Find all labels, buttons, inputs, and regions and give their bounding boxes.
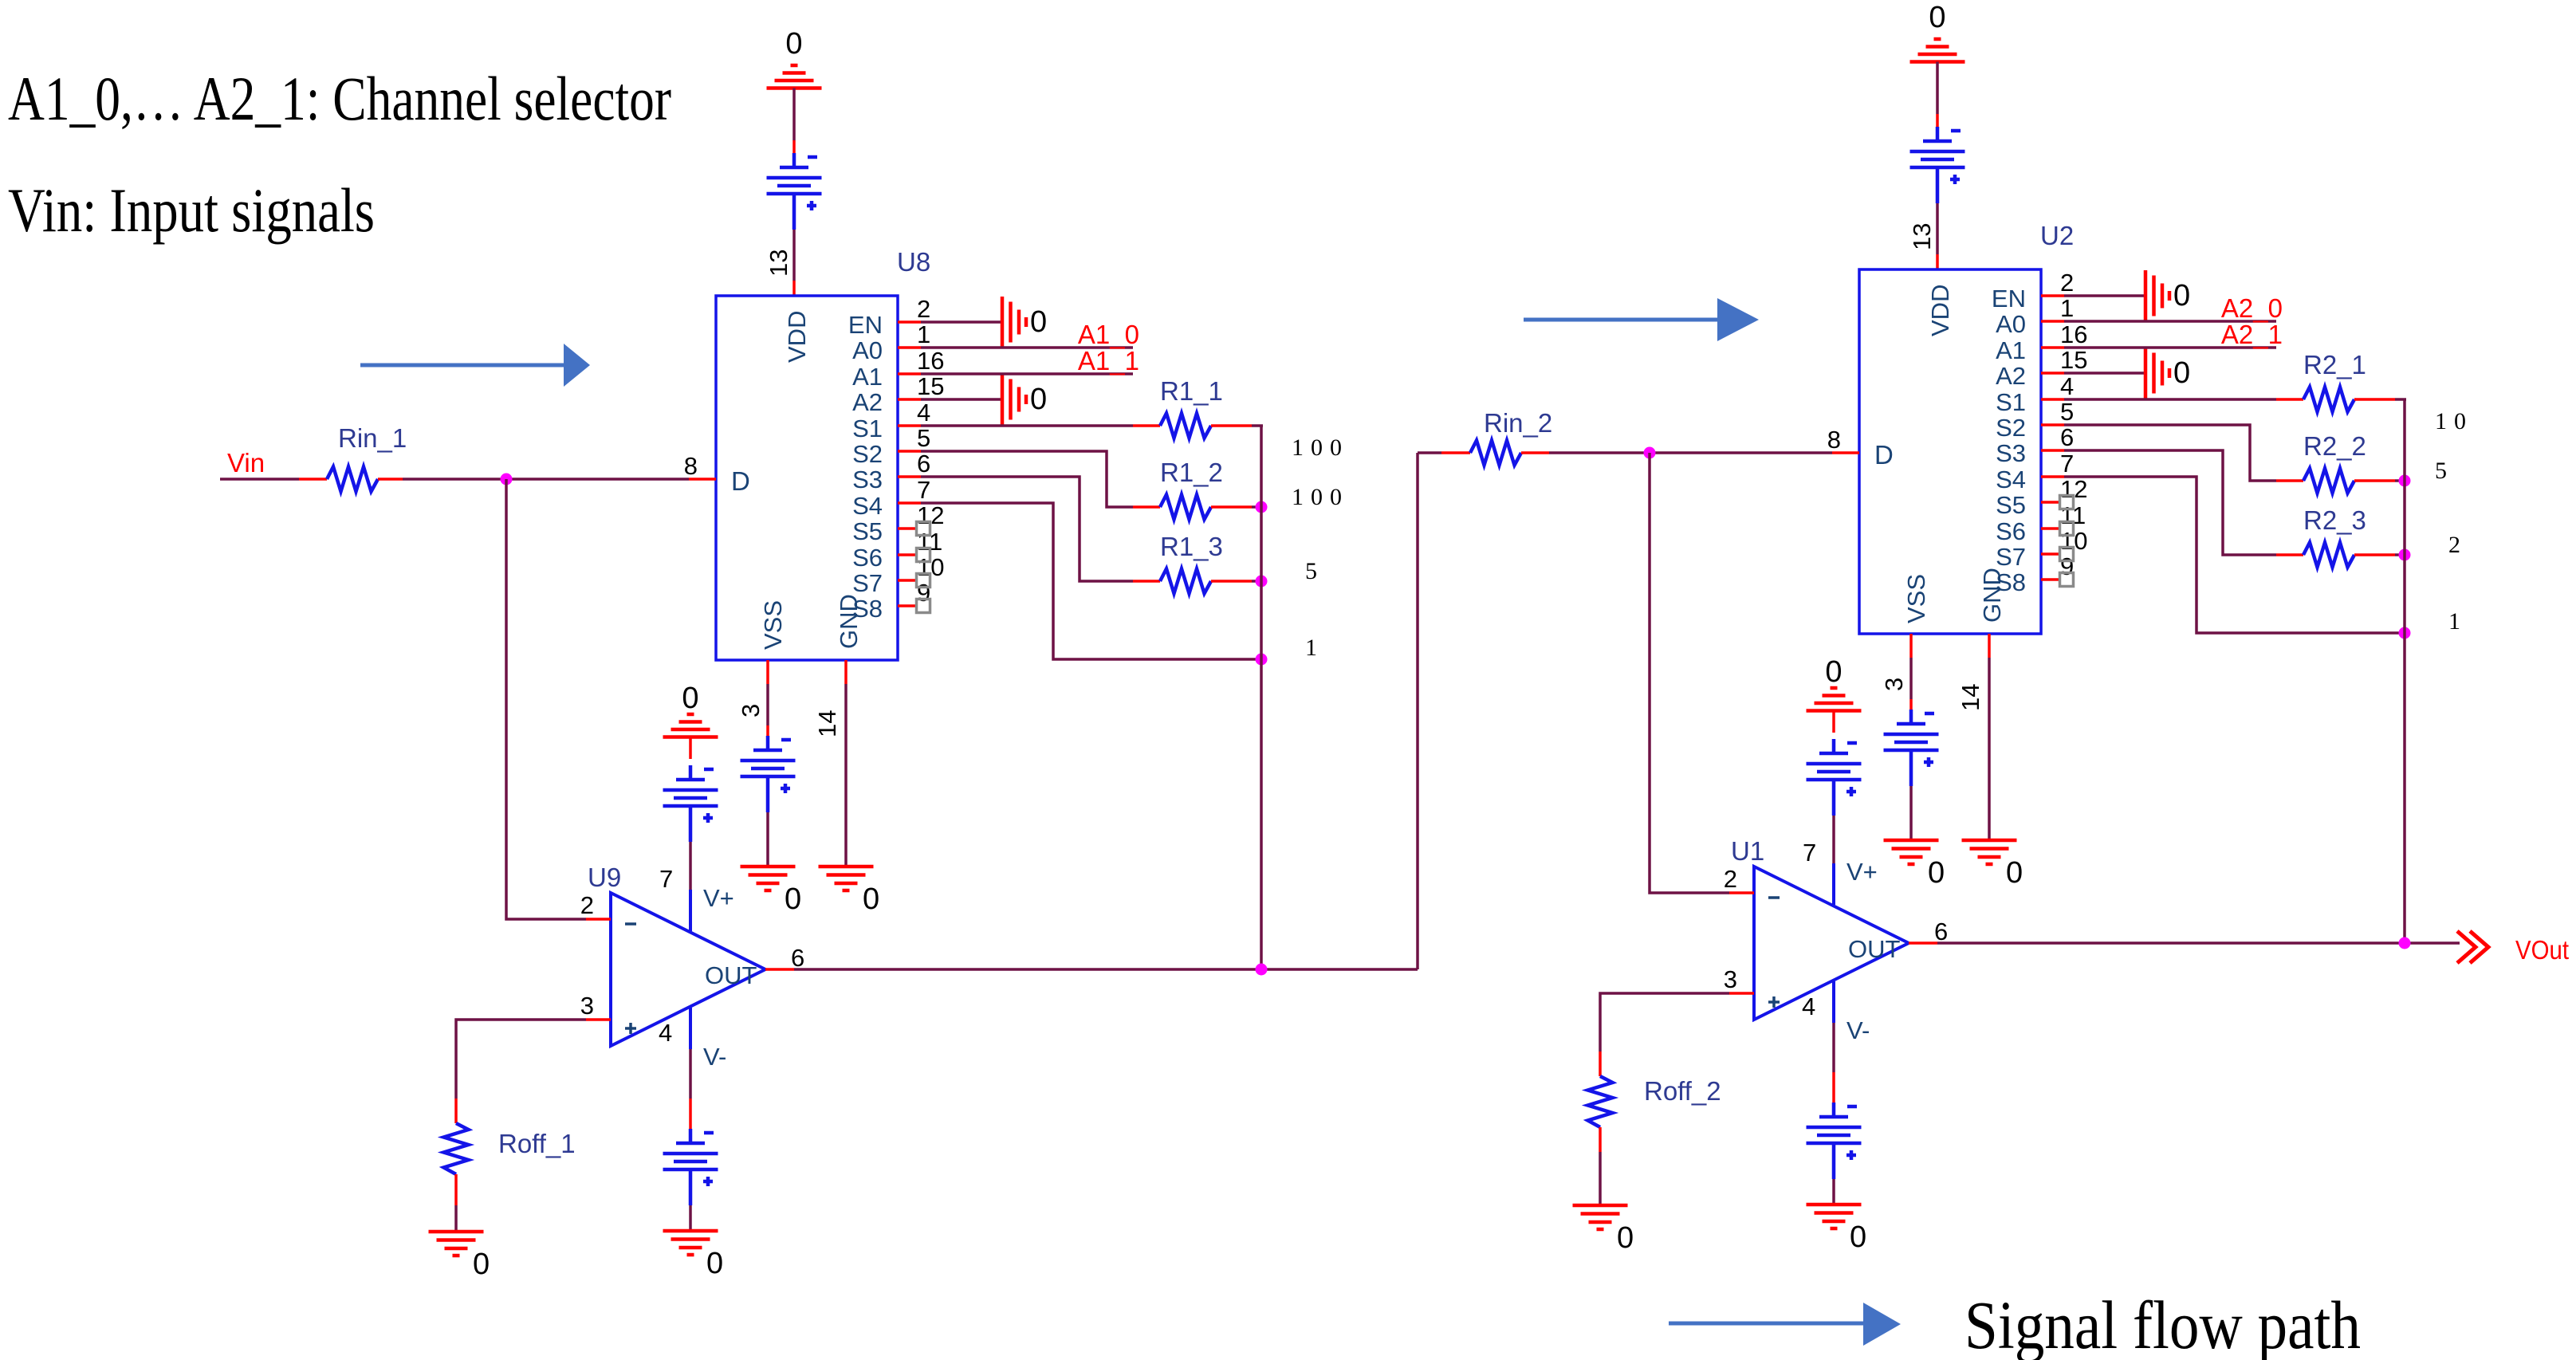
svg-text:5: 5 [2060,398,2074,426]
ground 0 at A2 of U2 [2145,348,2190,399]
svg-text:0: 0 [1825,655,1842,689]
wire summing bus [1260,426,1263,969]
wire [689,737,692,760]
wire [2395,479,2405,482]
battery V+ supply of U9 [663,765,718,842]
svg-text:0: 0 [1928,856,1945,890]
pin 1 A0 of U2 [1996,294,2074,338]
no-connect square pin 12 of U2 [2060,496,2074,509]
svg-text:A1_0: A1_0 [1078,320,1139,349]
svg-text:8: 8 [684,452,698,480]
wire A2 net [2064,371,2145,375]
pin 5 S2 of U8 [852,424,930,468]
wire S2 net [2064,425,2276,481]
svg-text:R1_1: R1_1 [1160,376,1223,406]
svg-text:EN: EN [1992,285,2026,312]
svg-text:S7: S7 [852,569,883,597]
wire to U2 D pin [1549,451,1832,454]
op-amp U1 [1731,836,1909,1044]
resistor R2_2 [2276,431,2395,493]
pin 13 VDD stub of U8 [765,250,794,296]
junction at stage-2 input node [1644,447,1656,459]
svg-text:S2: S2 [1996,414,2026,442]
pin 3 non-inverting input of U9 [580,992,611,1020]
svg-text:A0: A0 [852,336,883,364]
svg-text:7: 7 [917,476,930,504]
svg-text:3: 3 [737,704,765,717]
ground 0 under V- battery of U1 [1807,1205,1867,1254]
junction at summing bus bottom [1256,964,1268,976]
svg-text:0: 0 [682,682,698,715]
svg-text:100: 100 [1292,484,1349,510]
svg-text:7: 7 [1803,839,1816,867]
wire [1936,203,1939,254]
svg-text:EN: EN [848,311,883,339]
wire S4 net [2064,477,2405,633]
wire [689,1049,692,1099]
svg-text:S6: S6 [1996,517,2026,545]
wire [1936,62,1939,115]
IC U8 analog multiplexer [716,247,930,660]
wire net A2_1 [2064,346,2276,349]
svg-text:2: 2 [2060,269,2074,297]
battery V- supply of U9 [663,1129,718,1205]
wire to U1 inverting input [1650,453,1729,893]
wire [792,230,796,281]
resistor R1_1 [1133,376,1252,438]
svg-text:Rin_1: Rin_1 [338,423,407,453]
wire [1832,1072,1835,1103]
ground 0 at EN of U2 [2145,270,2190,321]
svg-text:5: 5 [1305,558,1324,584]
svg-text:1: 1 [2060,294,2074,322]
svg-text:Roff_2: Roff_2 [1644,1076,1721,1106]
svg-text:0: 0 [785,882,801,916]
svg-text:OUT: OUT [1848,935,1901,963]
svg-text:U1: U1 [1731,836,1764,866]
pin 14 GND stub of U8 [813,660,846,737]
svg-text:V+: V+ [703,884,734,912]
pin 3 non-inverting input of U1 [1724,965,1754,993]
pin 4 S1 of U2 [1996,372,2074,416]
pin 11 S6 of U2 [1996,501,2086,545]
wire summing bus [2403,399,2406,943]
pin 1 A0 of U8 [852,320,930,364]
svg-text:0: 0 [785,27,802,61]
svg-text:16: 16 [917,347,944,375]
svg-text:6: 6 [917,450,930,478]
svg-text:4: 4 [917,399,930,426]
wire S4 net [921,503,1261,659]
pin 16 A1 of U8 [852,347,944,391]
junction [2399,475,2411,487]
off-page connector VOut [2457,931,2488,963]
wire [456,1020,586,1099]
junction [2399,627,2411,639]
battery VDD supply of U8 [767,153,822,230]
wire [1909,786,1913,839]
wire net A2_0 [2064,320,2276,323]
svg-text:8: 8 [1827,426,1841,454]
svg-text:A2_1: A2_1 [2221,320,2283,349]
svg-text:S7: S7 [1996,543,2026,571]
wire S3 net [2064,450,2276,555]
svg-text:9: 9 [917,579,930,607]
svg-text:Roff_1: Roff_1 [498,1129,576,1158]
svg-text:0: 0 [863,882,879,916]
resistor R2_1 [2276,350,2395,412]
svg-text:S3: S3 [1996,439,2026,467]
svg-text:VDD: VDD [783,311,811,363]
signal flow arrow 2 [1524,298,1759,341]
svg-text:0: 0 [1617,1221,1634,1255]
junction at VOut node [2399,937,2411,949]
wire [766,684,769,725]
wire Vin input [220,478,299,481]
svg-text:2: 2 [917,295,930,323]
svg-text:S8: S8 [1996,568,2026,596]
svg-text:V+: V+ [1846,858,1878,886]
pin 2 inverting input of U9 [580,891,611,919]
svg-text:100: 100 [1292,434,1349,461]
svg-text:R1_3: R1_3 [1160,532,1223,561]
resistor Rin_2 [1441,408,1552,466]
ground 0 under Roff_1 [429,1232,490,1281]
resistor Roff_1 [444,1099,576,1205]
pin 10 S7 of U8 [852,553,944,597]
svg-text:2: 2 [1724,865,1737,893]
pin 15 A2 of U2 [1996,346,2087,390]
pin 7 S4 of U8 [852,476,930,520]
wire [766,725,769,740]
no-connect square pin 10 of U8 [917,574,930,588]
ground 0 above V+ battery of U9 [663,682,718,737]
pin 14 GND stub of U2 [1957,634,1989,711]
svg-text:0: 0 [2173,356,2190,390]
svg-text:3: 3 [1724,965,1737,993]
wire EN net [2064,294,2145,297]
pin 9 S8 of U2 [1996,552,2074,596]
pin 2 EN of U2 [1992,269,2074,312]
pin 6 S3 of U8 [852,450,930,493]
svg-text:5: 5 [2435,458,2454,484]
svg-text:0: 0 [2006,856,2023,890]
wire U1 output net [1937,941,2460,945]
wire [792,88,796,141]
wire net A1_1 [921,372,1133,375]
pin 5 S2 of U2 [1996,398,2074,442]
svg-text:1: 1 [917,320,930,348]
wire [1832,711,1835,733]
wire [1418,451,1441,454]
junction [1256,576,1268,588]
svg-text:0: 0 [2173,279,2190,312]
pin 6 output of U9 [765,944,804,972]
svg-text:S2: S2 [852,440,883,468]
svg-text:U9: U9 [588,863,621,892]
svg-text:D: D [731,466,750,496]
svg-text:15: 15 [917,372,944,400]
svg-text:S8: S8 [852,595,883,623]
ground 0 above U8 [767,27,822,88]
wire [1252,424,1263,427]
wire to U9 inverting input [506,479,586,919]
wire A2 net [921,398,1002,401]
svg-text:4: 4 [2060,372,2074,400]
ground 0 under VSS battery of U8 [741,867,802,916]
ground 0 under Roff_2 [1573,1205,1634,1255]
svg-text:13: 13 [765,250,792,277]
wire [792,140,796,154]
svg-text:VSS: VSS [1902,574,1930,623]
junction [1256,654,1268,666]
svg-text:0: 0 [1850,1220,1866,1254]
pin 3 VSS stub of U8 [737,660,768,717]
resistor Rin_1 [299,423,407,492]
wire [1832,1179,1835,1204]
svg-text:S6: S6 [852,544,883,572]
pin 16 A1 of U2 [1996,320,2087,364]
no-connect square pin 9 of U8 [917,599,930,613]
svg-text:R1_2: R1_2 [1160,458,1223,487]
svg-text:6: 6 [1934,918,1948,945]
svg-text:U2: U2 [2040,221,2074,250]
battery VSS supply of U2 [1884,709,1939,786]
svg-text:16: 16 [2060,320,2087,348]
svg-text:Signal flow path: Signal flow path [1964,1287,2361,1360]
svg-text:6: 6 [2060,423,2074,451]
wire S2 net [921,451,1133,507]
svg-text:4: 4 [659,1019,672,1047]
svg-text:S3: S3 [852,466,883,493]
wire S3 net [921,477,1133,581]
pin 11 S6 of U8 [852,528,942,572]
wire [1599,1152,1602,1205]
svg-text:13: 13 [1908,223,1936,250]
battery V- supply of U1 [1807,1103,1862,1179]
svg-text:4: 4 [1802,992,1815,1020]
pin 2 EN of U8 [848,295,930,339]
svg-text:7: 7 [659,865,673,893]
svg-text:1: 1 [1305,635,1324,661]
pin 8 D stub of U8 [684,452,716,480]
svg-text:V-: V- [1846,1016,1870,1044]
wire S1 net [2064,398,2276,401]
pin 2 inverting input of U1 [1724,865,1754,893]
svg-text:0: 0 [1929,1,1945,34]
IC U2 analog multiplexer [1859,221,2074,634]
svg-text:D: D [1874,440,1894,470]
pin 13 VDD stub of U2 [1908,223,1937,269]
svg-text:0: 0 [1030,383,1047,416]
battery V+ supply of U1 [1807,739,1862,816]
wire [689,1099,692,1129]
svg-text:S5: S5 [1996,491,2026,519]
wire [2395,553,2405,556]
junction [1256,501,1268,513]
wire [454,1205,458,1231]
svg-text:S4: S4 [1996,466,2026,493]
svg-text:Vin: Vin [227,448,265,478]
wire [1252,580,1261,583]
svg-text:14: 14 [813,710,841,737]
pin 6 S3 of U2 [1996,423,2074,467]
ground 0 under GND pin of U2 [1962,840,2023,890]
ground 0 above U2 [1910,1,1965,62]
svg-text:14: 14 [1957,684,1984,711]
wire [766,812,769,866]
resistor R2_3 [2276,505,2395,568]
resistor Roff_2 [1588,1051,1721,1152]
svg-text:R2_1: R2_1 [2303,350,2366,379]
wire [1832,1023,1835,1072]
wire [1909,658,1913,699]
svg-text:A1_1: A1_1 [1078,346,1139,375]
pin 9 S8 of U8 [852,579,930,623]
wire [1832,816,1835,863]
wire [1909,699,1913,713]
svg-text:9: 9 [2060,552,2074,580]
svg-text:V-: V- [703,1043,726,1071]
svg-text:U8: U8 [897,247,930,277]
pin 6 output of U1 [1909,918,1948,945]
svg-text:Rin_2: Rin_2 [1484,408,1552,438]
no-connect square pin 9 of U2 [2060,573,2074,587]
svg-text:A1: A1 [1996,336,2026,364]
svg-text:S1: S1 [1996,388,2026,416]
svg-text:5: 5 [917,424,930,452]
svg-text:1: 1 [2448,608,2468,635]
pin 15 A2 of U8 [852,372,944,416]
svg-text:R2_3: R2_3 [2303,505,2366,535]
svg-text:VSS: VSS [759,600,787,650]
svg-text:R2_2: R2_2 [2303,431,2366,461]
wire U9 output net [794,968,1418,971]
svg-text:3: 3 [1880,678,1908,691]
resistor R1_3 [1133,532,1252,594]
svg-text:10: 10 [2435,408,2473,434]
ground 0 at EN of U8 [1002,297,1047,348]
pin 4 S1 of U8 [852,399,930,442]
pin 12 S5 of U8 [852,501,944,545]
svg-text:0: 0 [473,1248,490,1281]
svg-text:2: 2 [580,891,594,919]
pin 8 D stub of U2 [1827,426,1859,454]
junction at Vin node [501,474,513,485]
svg-text:A2: A2 [852,388,883,416]
resistor R1_2 [1133,458,1252,520]
svg-text:0: 0 [1030,305,1047,339]
ground 0 at A2 of U8 [1002,374,1047,425]
svg-text:A1_0,… A2_1: Channel selector: A1_0,… A2_1: Channel selector [8,64,671,133]
svg-text:3: 3 [580,992,594,1020]
ground 0 under V- battery of U9 [663,1231,724,1280]
svg-text:7: 7 [2060,450,2074,478]
ground 0 under GND pin of U8 [819,867,880,916]
ground 0 above V+ battery of U1 [1807,655,1862,711]
pin 12 S5 of U2 [1996,475,2087,519]
wire [2395,398,2406,401]
svg-text:A0: A0 [1996,310,2026,338]
svg-text:6: 6 [791,944,804,972]
svg-text:0: 0 [706,1247,723,1280]
wire [1600,993,1729,1051]
svg-text:2: 2 [2448,532,2468,558]
wire [1252,505,1261,509]
wire [689,842,692,890]
no-connect square pin 12 of U8 [917,522,930,536]
wire [403,478,689,481]
svg-text:A2_0: A2_0 [2221,293,2283,323]
wire [844,684,848,866]
svg-text:15: 15 [2060,346,2087,374]
no-connect square pin 11 of U8 [917,548,930,562]
no-connect square pin 10 of U2 [2060,548,2074,561]
junction [2399,549,2411,561]
svg-text:A1: A1 [852,363,883,391]
pin 7 S4 of U2 [1996,450,2074,493]
pin 10 S7 of U2 [1996,527,2087,571]
battery VDD supply of U2 [1910,127,1965,203]
svg-text:S1: S1 [852,415,883,442]
svg-text:VDD: VDD [1926,285,1954,336]
wire EN net [921,320,1002,324]
wire up to Rin_2 [1416,453,1419,969]
ground 0 under VSS battery of U2 [1884,840,1945,890]
op-amp U9 [588,863,765,1071]
svg-text:OUT: OUT [705,961,757,989]
svg-text:A2: A2 [1996,362,2026,390]
signal flow arrow 1 [360,344,590,387]
svg-text:VOut: VOut [2515,935,2569,965]
wire [1988,658,1991,839]
wire [1936,114,1939,128]
signal flow arrow 3 [1669,1303,1901,1346]
pin 3 VSS stub of U2 [1880,634,1911,691]
wire [689,1205,692,1230]
wire S1 net [921,424,1133,427]
battery VSS supply of U8 [741,736,796,812]
svg-text:S5: S5 [852,517,883,545]
svg-text:Vin: Input signals: Vin: Input signals [8,175,375,245]
no-connect square pin 11 of U2 [2060,522,2074,536]
wire net A1_0 [921,346,1133,349]
svg-text:S4: S4 [852,492,883,520]
